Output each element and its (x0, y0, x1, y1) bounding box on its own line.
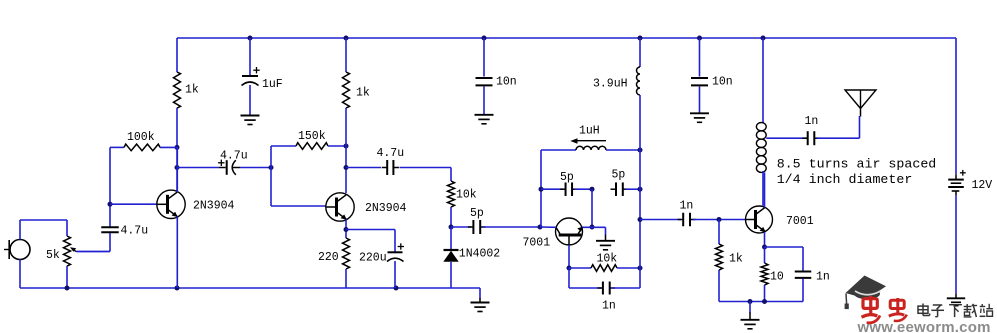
wire Q2 base (271, 205, 326, 207)
wire Q4 collector (764, 173, 766, 208)
logo chongchong red characters (862, 296, 907, 323)
wire (450, 227, 452, 250)
node R5/Q2 collector (344, 144, 349, 149)
wire (249, 38, 251, 76)
node Q1 collector / C3 (175, 165, 180, 170)
wire Q4 emitter (764, 232, 766, 247)
wire (450, 262, 452, 288)
antenna ANT1 (845, 90, 876, 117)
wire (762, 38, 764, 123)
node Q3 emitter (590, 225, 595, 230)
ground GND C2 (241, 116, 260, 125)
inductor L1 3.9uH (593, 67, 640, 95)
wire (693, 219, 746, 221)
wire mic to pot (20, 220, 67, 240)
wire (617, 267, 640, 269)
transistor Q2 2N3904 (326, 193, 407, 221)
wire (450, 207, 452, 227)
wire mic to ground rail (19, 260, 21, 289)
wire (817, 116, 860, 138)
node R8 right (638, 266, 643, 271)
wire (346, 230, 395, 253)
capacitor C9 10n (691, 76, 733, 89)
capacitor C14 1n (795, 271, 830, 284)
inductor L2 1uH (570, 125, 606, 151)
capacitor C2 1uF (242, 67, 283, 91)
resistor R2 1k (174, 72, 199, 108)
wire (483, 38, 485, 77)
node Q2 collector / C6 (344, 165, 349, 170)
wire (762, 171, 764, 206)
wire (606, 149, 640, 151)
resistor R4 1k (343, 72, 370, 108)
ground GND Q3 (596, 235, 615, 250)
node top rail / C2 1uF (248, 36, 253, 41)
node top rail / R4 1k (344, 36, 349, 41)
svg-text:5p: 5p (560, 171, 574, 184)
wire PA bottom row (719, 301, 803, 303)
svg-text:4.7u: 4.7u (377, 147, 405, 160)
svg-text:1uF: 1uF (262, 78, 283, 91)
node rail/C5 (394, 286, 399, 291)
node C3/R5/Q2 base (269, 165, 274, 170)
node Q2 emitter / R6 / C5 (344, 227, 349, 232)
svg-text:10: 10 (770, 271, 784, 284)
wire (639, 38, 641, 67)
svg-text:10k: 10k (456, 189, 477, 202)
wire (345, 38, 347, 72)
capacitor C7 5p (468, 207, 486, 234)
wire (749, 302, 751, 314)
wire (345, 269, 347, 288)
wire (345, 108, 347, 193)
logo url www.eeworm.com (857, 319, 991, 333)
node Q3 collector tank (538, 225, 543, 230)
wire (394, 261, 396, 288)
wire V+ top rail (177, 37, 956, 39)
wire (766, 137, 807, 139)
svg-text:7001: 7001 (786, 215, 814, 228)
svg-text:2N3904: 2N3904 (193, 200, 235, 213)
svg-text:12V: 12V (972, 179, 993, 192)
wire (177, 167, 219, 169)
potentiometer R3 5k (46, 236, 71, 266)
svg-text:150k: 150k (298, 130, 326, 143)
wire (591, 189, 593, 227)
capacitor C11 5p (611, 169, 629, 196)
svg-text:2N3904: 2N3904 (365, 202, 407, 215)
svg-text:1n: 1n (680, 200, 694, 213)
resistor R8 10k (591, 253, 617, 272)
node R1/R2 (175, 145, 180, 150)
wire Q3 collector (540, 226, 556, 228)
svg-text:1N4002: 1N4002 (459, 248, 501, 261)
wire (346, 167, 381, 169)
capacitor C6 4.7u (377, 147, 405, 175)
svg-text:www.eeworm.com: www.eeworm.com (857, 319, 991, 333)
node C10 left (539, 187, 544, 192)
resistor R10 10 (761, 263, 784, 285)
capacitor C5 220u (359, 243, 404, 264)
wire Q1 emitter (176, 217, 178, 289)
wire (765, 247, 804, 271)
capacitor C12 1n (597, 282, 615, 313)
node rail/pot (65, 286, 70, 291)
wire (400, 168, 452, 182)
node C11 right (638, 187, 643, 192)
node Q4 base / R9 (717, 217, 722, 222)
capacitor C3 4.7u (218, 150, 248, 175)
ground GND main (471, 298, 490, 312)
logo graduation cap (845, 276, 886, 310)
logo text dianzi xiazai zhan (918, 304, 993, 318)
node top rail / C9 10n (697, 36, 702, 41)
svg-text:8.5 turns air spaced: 8.5 turns air spaced (777, 157, 937, 172)
transistor Q4 7001 (746, 206, 814, 233)
ground GND C8 (475, 115, 494, 124)
battery BT1 12V (948, 170, 992, 195)
capacitor C13 1n (678, 200, 696, 227)
wire (451, 226, 471, 228)
ground GND PA (741, 312, 760, 329)
wire (955, 38, 957, 174)
note coil text (777, 157, 937, 188)
node R7/D1/C7 (449, 225, 454, 230)
svg-text:1n: 1n (602, 300, 616, 313)
capacitor C10 5p (560, 171, 578, 196)
node C10/C11/Q3 emitter (590, 187, 595, 192)
svg-text:4.7u: 4.7u (121, 225, 149, 238)
wire C1 to wiper (77, 233, 110, 252)
wire (176, 38, 178, 72)
wire (483, 87, 485, 115)
svg-text:10k: 10k (597, 253, 618, 266)
svg-text:5p: 5p (470, 207, 484, 220)
wire (483, 226, 541, 228)
svg-text:4.7u: 4.7u (220, 150, 248, 163)
svg-text:220: 220 (318, 251, 339, 264)
wire (764, 247, 766, 263)
microphone MIC1 (4, 240, 30, 260)
resistor R5 150k (296, 130, 328, 149)
ground GND C9 (690, 113, 709, 122)
svg-text:5k: 5k (46, 249, 60, 262)
svg-text:100k: 100k (127, 131, 155, 144)
wire (699, 38, 701, 77)
wire (240, 167, 271, 169)
node top rail / L1 3.9uH (638, 36, 643, 41)
wire Q1 collector (176, 147, 178, 192)
svg-text:10n: 10n (712, 76, 733, 89)
wire (328, 145, 346, 147)
svg-text:1k: 1k (185, 84, 199, 97)
wire (541, 149, 576, 151)
wire (640, 219, 681, 221)
wire (718, 220, 720, 245)
wire (955, 195, 957, 294)
wire to Q1 base (110, 203, 158, 205)
node L2/L1 (638, 148, 643, 153)
transistor Q1 2N3904 (157, 190, 235, 218)
capacitor C15 1n (802, 115, 820, 145)
wire (249, 85, 251, 115)
resistor R6 220 (318, 238, 350, 269)
node top rail / L3 coil (761, 36, 766, 41)
inductor L3 8.5 turns (756, 123, 766, 173)
resistor R1 100k (124, 131, 160, 151)
wire (612, 287, 641, 289)
svg-text:1n: 1n (816, 271, 830, 284)
svg-text:7001: 7001 (523, 237, 551, 250)
wire pot to ground rail (66, 266, 68, 288)
wire (575, 188, 593, 190)
wire (569, 268, 601, 288)
svg-text:3.9uH: 3.9uH (593, 78, 628, 91)
node R10 bottom (762, 299, 767, 304)
wire (699, 87, 701, 113)
wire R1 to C1 (109, 147, 111, 227)
svg-text:1k: 1k (356, 87, 370, 100)
svg-text:10n: 10n (496, 76, 517, 89)
diode D1 1N4002 (443, 248, 500, 262)
node top rail / C8 10n (482, 36, 487, 41)
node osc output tap (638, 217, 643, 222)
wire (110, 146, 124, 148)
svg-text:5p: 5p (612, 169, 626, 182)
node PA ground (748, 299, 753, 304)
wire (626, 188, 641, 190)
wire (160, 146, 177, 148)
svg-text:1k: 1k (729, 253, 743, 266)
svg-text:1n: 1n (805, 115, 819, 128)
transistor Q3 7001 (523, 218, 584, 250)
pot wiper arrow (70, 247, 110, 251)
wire (270, 146, 272, 206)
wire (718, 270, 720, 302)
wire ground rail (20, 288, 480, 299)
svg-text:1/4 inch diameter: 1/4 inch diameter (777, 172, 913, 187)
svg-text:220u: 220u (359, 252, 387, 265)
node rail/Q1 emitter (175, 286, 180, 291)
wire (176, 108, 178, 191)
wire Q3 base (568, 245, 570, 268)
wire (802, 279, 804, 302)
resistor R7 10k (448, 181, 477, 207)
wire (639, 95, 641, 288)
wire (541, 188, 563, 190)
node R8 left (567, 266, 572, 271)
node Q4 emitter (762, 245, 767, 250)
wire (569, 267, 591, 269)
wire Q2 emitter (345, 220, 347, 239)
wire (764, 285, 766, 302)
wire Q3 emitter to gnd (583, 227, 606, 235)
resistor R9 1k (716, 244, 743, 270)
capacitor C8 10n (476, 76, 517, 89)
svg-text:1uH: 1uH (579, 125, 600, 138)
wire (271, 145, 296, 147)
ground GND battery (947, 294, 965, 306)
wire tank left (540, 150, 542, 227)
node Q1 base (108, 202, 113, 207)
capacitor C1 4.7u (101, 225, 148, 238)
